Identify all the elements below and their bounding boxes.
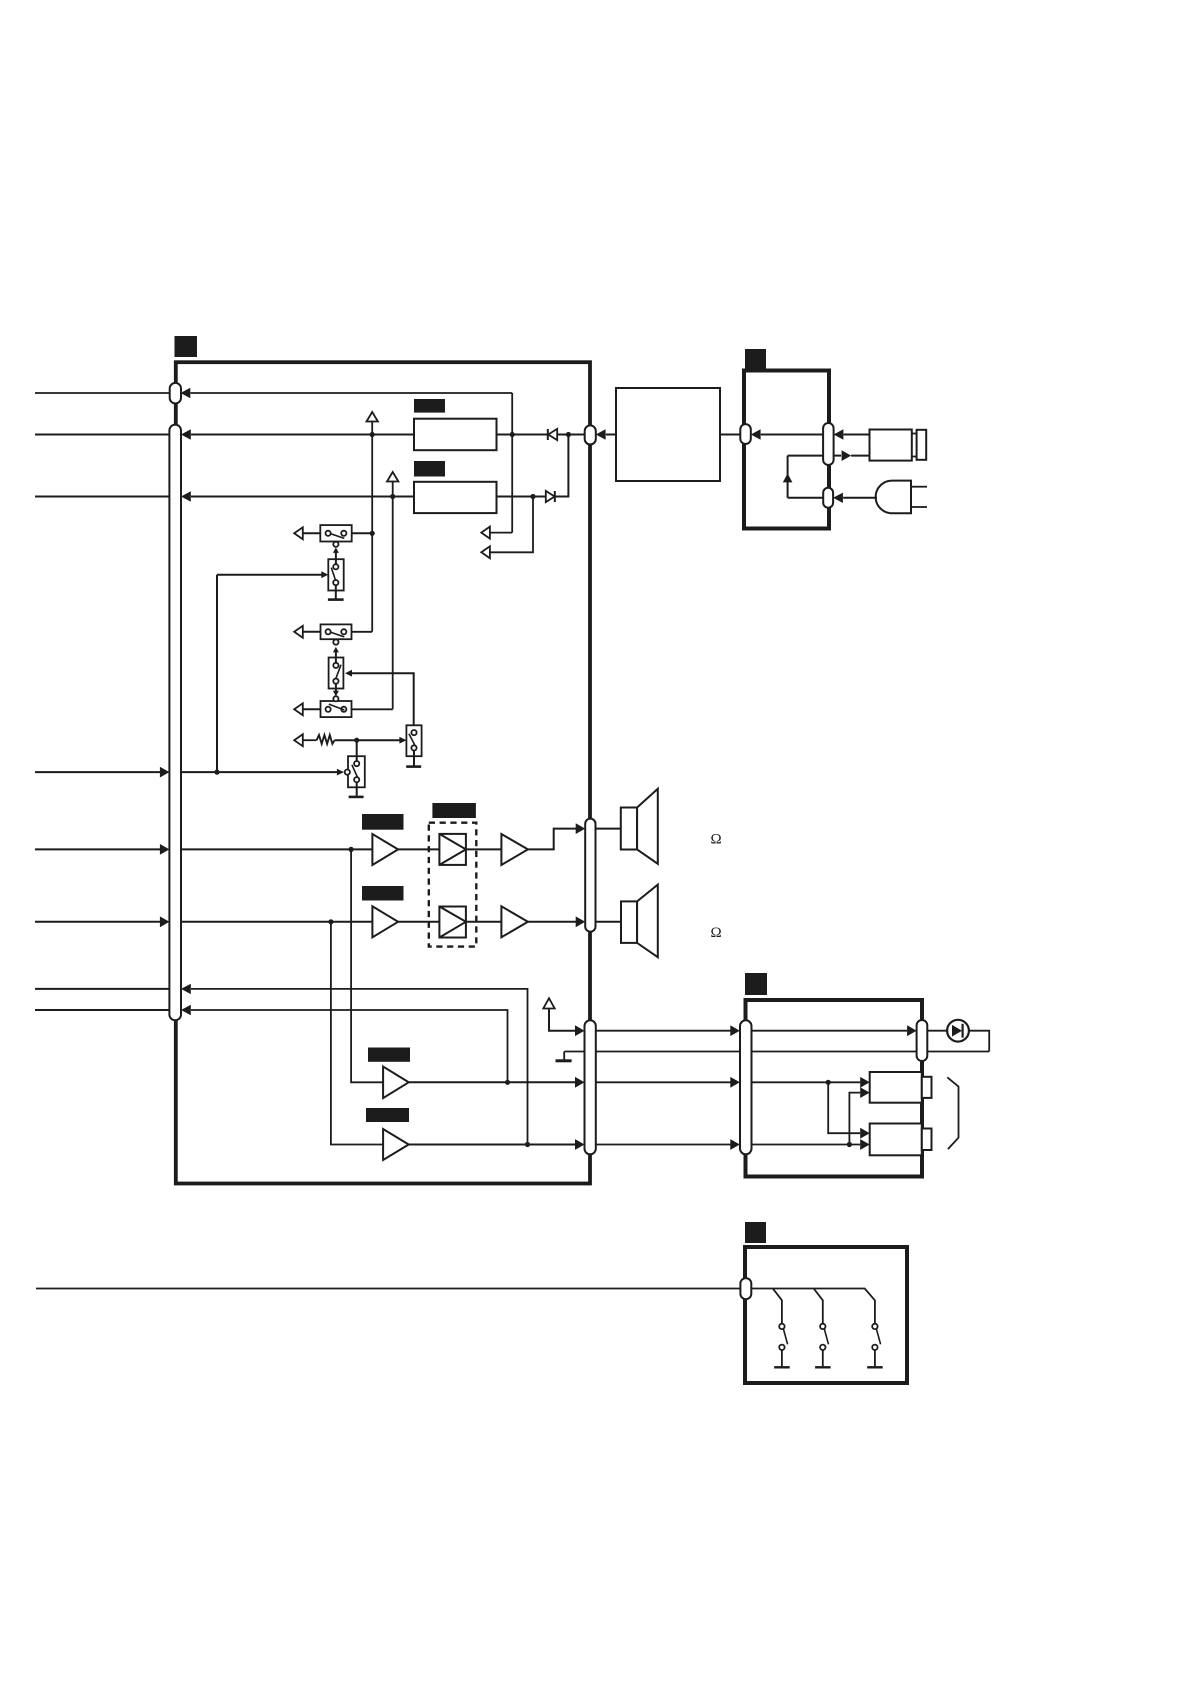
- off-page terminal R1: [294, 734, 303, 746]
- diode D1: [548, 429, 557, 440]
- SW3 contact b: [341, 629, 346, 634]
- junction dot line5/HP: [349, 847, 354, 852]
- wire line 1 inside: [191, 392, 513, 394]
- wire SW3 left lead: [303, 631, 321, 633]
- DC adaptor plug link bottom: [912, 456, 917, 458]
- wire to key switch board: [36, 1288, 740, 1290]
- DC adaptor plug link top: [912, 433, 917, 435]
- wire main to HP board L: [596, 1081, 731, 1083]
- SW2 contact b: [333, 580, 338, 585]
- wire IC R out: [466, 921, 502, 923]
- wire riser B2: [392, 481, 394, 710]
- headphone jack J1: [870, 1072, 922, 1103]
- wire line 2 to block: [191, 434, 414, 436]
- switch SW7 box: [348, 756, 365, 787]
- wire riser B1: [371, 421, 373, 632]
- hp amp L label (redacted): [368, 1048, 410, 1062]
- SW1 common contact: [333, 542, 338, 547]
- power amp IC label (redacted): [432, 803, 476, 818]
- junction dot HPR/line7: [525, 1142, 530, 1147]
- wire line 7 inside: [191, 989, 528, 1145]
- wire transformer to PS board: [720, 434, 740, 436]
- arrow to DC jack: [842, 450, 852, 461]
- arrow into HP board R: [730, 1139, 740, 1150]
- wire line 4 left: [35, 771, 160, 773]
- SW7 common contact: [345, 770, 350, 775]
- key bus tap 3: [814, 1289, 875, 1324]
- LED D1 bar: [961, 1024, 963, 1038]
- arrow into jack J1 tip: [860, 1077, 870, 1088]
- off-page terminal arrow A2: [481, 546, 490, 558]
- wire HP ground return: [564, 1051, 989, 1053]
- svg-text:Ω: Ω: [711, 925, 722, 941]
- arrow out line 1: [181, 388, 191, 398]
- wire L to speaker connector: [528, 829, 576, 850]
- SW4 arrow down: [333, 691, 339, 697]
- key switch board label (redacted): [745, 1222, 766, 1243]
- supply arrow B2 (open, up): [387, 472, 398, 482]
- SW3 lever: [331, 632, 345, 637]
- key switch S1 contact b: [779, 1345, 784, 1350]
- preamp U1-L: [372, 834, 398, 865]
- function block 2: [414, 482, 497, 513]
- headphone jack J1 bushing: [922, 1077, 932, 1098]
- function block 1 (redacted label): [414, 399, 445, 413]
- wire line 2 left: [35, 434, 169, 436]
- key switch S3 contact a: [872, 1324, 877, 1329]
- wire to speaker L: [596, 828, 621, 830]
- preamp R label (redacted): [362, 886, 404, 901]
- wire vertical V1: [511, 393, 513, 533]
- SW4 contact b: [333, 679, 338, 684]
- headphone jack J2: [870, 1124, 922, 1156]
- connector key board: [740, 1278, 751, 1299]
- wire IC L out: [466, 848, 502, 850]
- speaker SP-L: [621, 808, 637, 850]
- function block 1: [414, 419, 497, 451]
- key switch S2 bottom lead: [822, 1350, 824, 1366]
- SW3 common contact: [333, 640, 338, 645]
- arrow into connector line 5: [160, 844, 170, 855]
- SW6 lever: [409, 734, 415, 745]
- junction dot node D: [566, 432, 571, 437]
- SW5 contact a: [326, 707, 331, 712]
- supply arrow B1 (open, up): [367, 412, 378, 422]
- ground bar SW6: [406, 765, 421, 768]
- buffer U2-R: [501, 906, 528, 937]
- key switch S3 contact b: [872, 1345, 877, 1350]
- wire line 6 to preamp R: [181, 921, 372, 923]
- wire line4 riser to SW2: [216, 575, 218, 772]
- arrow into jack J2 tip: [860, 1128, 870, 1139]
- key switch board outline: [745, 1247, 907, 1383]
- connector CN tall (left border): [169, 425, 181, 1021]
- connector CN small (line 1): [170, 383, 181, 404]
- SW3 contact a: [326, 629, 331, 634]
- junction dot line2/varrow: [370, 432, 375, 437]
- wire SW4 top lead: [335, 652, 337, 664]
- power supply board outline: [744, 371, 829, 529]
- wire PS feedback bottom: [788, 497, 824, 499]
- arrow into jack J2 ring: [860, 1139, 870, 1150]
- key switch S2 lever: [824, 1329, 828, 1345]
- SW7 contact b: [354, 777, 359, 782]
- diode D2: [546, 491, 555, 502]
- switch SW1 box: [320, 525, 351, 541]
- SW6 feed arrow: [399, 737, 406, 744]
- wire line 7 left: [35, 988, 169, 990]
- preamp U1-R: [372, 906, 398, 937]
- DC adaptor plug body: [870, 430, 912, 461]
- ground bar SW7: [349, 796, 364, 799]
- ground bar S2: [815, 1366, 831, 1368]
- key switch S2 contact b: [820, 1345, 825, 1350]
- ground stub: [563, 1052, 565, 1060]
- wire HP R tap: [331, 922, 383, 1145]
- wire PS internal AC: [761, 434, 823, 436]
- connector PS right upper: [823, 423, 834, 465]
- wire DC jack top: [844, 434, 870, 436]
- svg-text:Ω: Ω: [711, 832, 722, 848]
- SW2 arrow up: [333, 547, 339, 553]
- arrow into HP board supply: [730, 1025, 740, 1036]
- arrow out line 7: [181, 984, 191, 994]
- wire line 3 left: [35, 496, 169, 498]
- SW6 contact b: [411, 745, 416, 750]
- arrow into LED connector: [907, 1025, 917, 1036]
- power supply board label (redacted): [745, 349, 766, 369]
- junction dot riser/sw1: [370, 531, 375, 536]
- switch SW6 box: [406, 725, 421, 756]
- wire line 6 left (R ch input): [35, 921, 160, 923]
- wire HP L tap: [351, 849, 383, 1082]
- arrow into connector line 4: [160, 767, 170, 778]
- junction dot HPL/line8: [505, 1080, 510, 1085]
- wire SW7 bottom lead: [356, 782, 358, 796]
- arrow HP L into connector: [575, 1077, 585, 1088]
- SW1 contact a: [326, 531, 331, 536]
- power amp IC cell L box: [439, 834, 466, 865]
- switch SW5 box: [321, 701, 352, 717]
- SW5 contact b: [341, 707, 346, 712]
- wire SW2 top lead: [335, 552, 337, 565]
- arrow out line 3: [181, 491, 191, 501]
- SW6 contact a: [411, 730, 416, 735]
- wire SW2 control feed: [217, 574, 322, 576]
- switch SW2 box: [328, 559, 343, 590]
- SW7 contact a: [354, 761, 359, 766]
- AC plug prong 1: [911, 486, 927, 488]
- key switch S1 bottom lead: [781, 1350, 783, 1366]
- arrow AC into main board: [596, 429, 606, 439]
- power transformer T1: [616, 388, 720, 481]
- junction dot line6/HP: [328, 919, 333, 924]
- wire to resistor R1: [303, 739, 317, 741]
- arrow supply into connector: [575, 1025, 585, 1036]
- wire SW4 control feed: [352, 673, 414, 725]
- ground bar SW2: [328, 598, 344, 601]
- wire LED return: [969, 1031, 989, 1052]
- AC mains plug: [876, 481, 911, 514]
- wire line 8 left: [35, 1009, 169, 1011]
- wire SW1 left lead: [303, 532, 321, 534]
- connector CN headphone (right border): [585, 1020, 596, 1154]
- headphone bracket: [947, 1077, 958, 1149]
- SW5 lever: [329, 704, 345, 710]
- wire V1 to terminal: [490, 532, 512, 534]
- arrow into PS left connector: [751, 429, 761, 439]
- power amp IC cell R box: [439, 907, 466, 938]
- SW7 feed arrow: [337, 769, 344, 776]
- wire SW1 right lead: [352, 532, 373, 534]
- off-page terminal arrow A1: [481, 527, 490, 539]
- wire HP board supply: [752, 1030, 908, 1032]
- junction dot line3/varrow: [390, 494, 395, 499]
- wire SW4 bottom lead: [335, 684, 337, 692]
- resistor R1: [317, 735, 335, 744]
- key switch S1 contact a: [779, 1324, 784, 1329]
- wire SW5 left lead: [303, 708, 321, 710]
- wire SW6 bottom lead: [413, 751, 415, 766]
- junction dot R1 node: [354, 738, 359, 743]
- arrow from AC plug: [833, 493, 843, 503]
- wire DC jack bottom 2: [851, 455, 869, 457]
- wire V3: [490, 497, 533, 553]
- SW4 arrow up: [333, 647, 339, 653]
- wire D2 up to node: [555, 435, 569, 497]
- wire R to speaker connector: [528, 921, 576, 923]
- junction dot HP R: [847, 1142, 852, 1147]
- SW1 contact b: [341, 531, 346, 536]
- wire supply to connector: [549, 1009, 576, 1031]
- arrow out line 8: [181, 1005, 191, 1015]
- wire block1 to diode D1: [497, 434, 548, 436]
- arrow up PS feedback: [783, 473, 793, 482]
- LED D1 circle: [947, 1020, 969, 1042]
- wire cross L to J2: [828, 1082, 860, 1133]
- junction dot HP L: [826, 1080, 831, 1085]
- wire line 5 left (L ch input): [35, 848, 160, 850]
- buffer U2-L: [501, 834, 528, 865]
- SW4 contact a: [333, 663, 338, 668]
- arrow HP R into connector: [575, 1139, 585, 1150]
- wire preamp R to power IC: [398, 921, 439, 923]
- wire line 8 inside: [191, 1010, 508, 1082]
- key switch S3 bottom lead: [874, 1350, 876, 1366]
- wire riser B2 to SW5: [352, 708, 393, 710]
- wire line 3 to block: [191, 496, 414, 498]
- off-page terminal SW5: [294, 703, 303, 715]
- wire transformer to main board: [606, 434, 616, 436]
- SW7 lever: [352, 765, 358, 778]
- key switch S3 lever: [876, 1329, 880, 1345]
- wire AC plug: [843, 497, 877, 499]
- arrow from DC jack: [834, 429, 844, 439]
- SW4 feed arrow: [345, 670, 352, 677]
- AC plug prong 2: [911, 506, 927, 508]
- wire main to HP board R: [596, 1144, 731, 1146]
- diode D1 bar: [547, 429, 549, 440]
- wire to LED: [927, 1030, 947, 1032]
- power amp IC cell R triangle: [439, 907, 466, 938]
- wire riser B1 to SW3: [352, 631, 373, 633]
- wire cross R to J1: [849, 1093, 860, 1145]
- hp amp R label (redacted): [366, 1108, 409, 1122]
- SW4 lever: [336, 665, 342, 680]
- wire HP board R: [752, 1144, 861, 1146]
- headphone jack J2 bushing: [922, 1129, 932, 1151]
- diode D2 bar: [554, 491, 556, 502]
- wire D1 to node: [557, 434, 585, 436]
- wire line 5 to preamp L: [181, 848, 372, 850]
- SW2 lever: [331, 568, 335, 581]
- wire HP L out: [409, 1081, 576, 1083]
- key bus wire: [751, 1289, 782, 1324]
- key switch S2 contact a: [820, 1324, 825, 1329]
- key bus tap 2: [773, 1289, 823, 1324]
- wire preamp L to power IC: [398, 848, 439, 850]
- main board label (redacted): [175, 336, 198, 357]
- connector HP board left: [740, 1020, 752, 1154]
- ground bar HP: [556, 1059, 572, 1062]
- ground bar S3: [867, 1366, 883, 1368]
- wire PS feedback top: [788, 455, 824, 457]
- switch SW4 box: [329, 658, 344, 689]
- main amplifier board outline: [176, 362, 590, 1183]
- junction dot line4: [214, 770, 219, 775]
- connector LED board: [917, 1020, 928, 1061]
- arrow into jack J1 ring: [860, 1087, 870, 1098]
- junction dot line2/V1: [510, 432, 515, 437]
- SW5 common contact: [333, 696, 338, 701]
- headphone board label (redacted): [745, 973, 767, 995]
- connector PS left: [740, 424, 751, 444]
- off-page terminal SW1: [294, 527, 303, 539]
- arrow out line 2: [181, 429, 191, 439]
- supply arrow HP (open, up): [543, 998, 554, 1008]
- arrow into speaker connector R: [576, 916, 586, 927]
- wire DC jack bottom: [834, 455, 842, 457]
- wire to speaker R: [596, 921, 622, 923]
- connector CN speakers (right border): [585, 819, 595, 932]
- DC adaptor plug tip: [917, 430, 927, 460]
- wire block2 to diode D2: [497, 496, 546, 498]
- LED D1 diode: [952, 1025, 962, 1037]
- preamp L label (redacted): [362, 814, 404, 830]
- connector CN AC-in (right border): [585, 425, 596, 444]
- wire node to SW7 top: [356, 740, 358, 764]
- key switch S1 lever: [783, 1329, 787, 1345]
- wire R1 to node: [335, 739, 400, 741]
- arrow into HP board L: [730, 1077, 740, 1088]
- SW2 contact a: [333, 564, 338, 569]
- switch SW3 box: [321, 624, 352, 639]
- arrow into speaker connector L: [576, 823, 586, 834]
- wire PS feedback riser: [787, 456, 789, 498]
- function block 2 (redacted label): [414, 461, 445, 477]
- wire SW2 bottom lead: [335, 585, 337, 598]
- off-page terminal SW3: [294, 626, 303, 638]
- power amp IC cell L triangle: [439, 834, 466, 865]
- wire line 4 to SW7: [181, 771, 337, 773]
- ground bar S1: [774, 1366, 790, 1368]
- wire HP board L: [752, 1081, 861, 1083]
- hp amp U3-L: [383, 1067, 409, 1099]
- wire TAPE OUT L (line 1 left): [35, 392, 170, 394]
- junction dot line3/V3: [530, 494, 535, 499]
- SW1 lever: [331, 534, 345, 539]
- speaker SP-R: [621, 901, 637, 943]
- wire HP R out: [409, 1144, 576, 1146]
- headphone board outline: [746, 1000, 923, 1177]
- hp amp U3-R: [383, 1129, 409, 1160]
- power amp IC dashed box: [429, 823, 477, 947]
- connector PS right lower: [823, 488, 833, 508]
- wire main to HP board supply: [596, 1030, 731, 1032]
- arrow into connector line 6: [160, 916, 170, 927]
- SW2 feed arrow: [321, 571, 328, 578]
